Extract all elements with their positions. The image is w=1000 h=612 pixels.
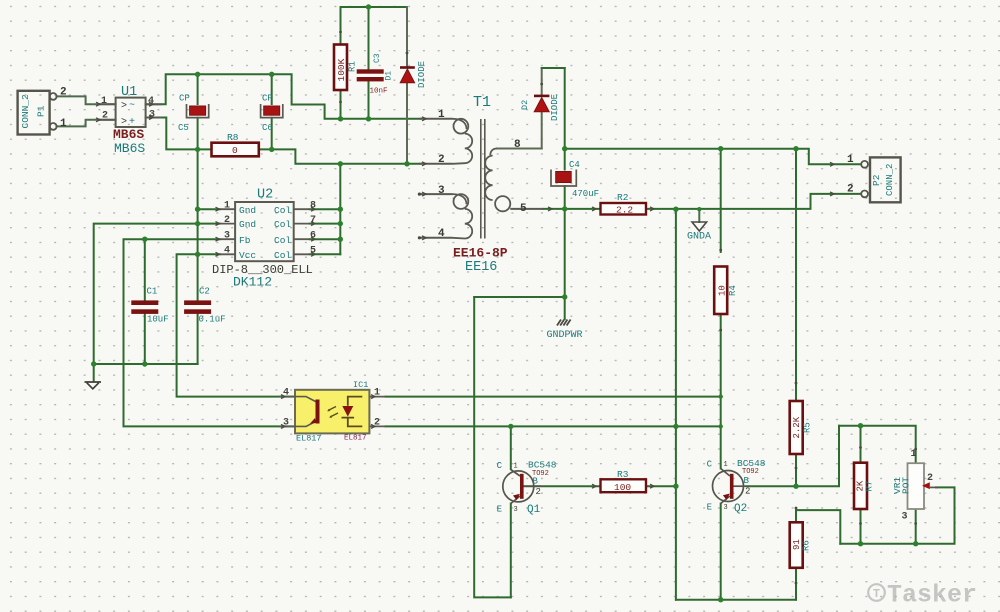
svg-text:POT: POT (901, 477, 912, 494)
junction collector rail (338, 161, 343, 166)
svg-text:1: 1 (224, 201, 230, 212)
wire D2 top corner (542, 67, 565, 69)
svg-text:3: 3 (724, 504, 728, 512)
svg-text:3: 3 (514, 506, 518, 514)
svg-text:5: 5 (520, 203, 527, 215)
svg-text:B: B (744, 476, 750, 486)
wire U2 collector column (339, 164, 341, 255)
wire R4 bottom to Q2 collector (720, 314, 722, 469)
wire D1 cathode (406, 7, 408, 67)
svg-text:R4: R4 (728, 285, 738, 296)
wire R5 bottom (795, 454, 797, 486)
ground symbol GNDPWR (557, 320, 571, 326)
junction VR1.3 (913, 541, 918, 546)
diode D2 (534, 96, 549, 112)
wire Q1 emitter loop (474, 297, 511, 597)
svg-text:TO92: TO92 (742, 468, 759, 476)
wire divider bottom rail to wiper (840, 487, 954, 543)
svg-text:~: ~ (129, 101, 135, 112)
wire U2.6 (310, 238, 341, 240)
svg-text:2.2: 2.2 (616, 205, 633, 216)
potentiometer VR1 (908, 463, 939, 509)
svg-text:P1: P1 (36, 105, 47, 117)
svg-text:C2: C2 (199, 287, 210, 297)
junction C1 bottom (142, 361, 147, 366)
junction IC1.2 wire at gnd column (673, 424, 678, 429)
junction C6 top (269, 72, 274, 77)
svg-text:U1: U1 (121, 85, 137, 100)
svg-text:DIODE: DIODE (550, 94, 560, 121)
wire R6 bottom (795, 568, 797, 600)
svg-text:Fb: Fb (239, 235, 251, 246)
svg-text:4: 4 (224, 246, 230, 257)
junction U2.6 (338, 237, 343, 242)
junction gnd bus left (91, 361, 96, 366)
svg-text:EL817: EL817 (296, 434, 322, 444)
svg-text:10nF: 10nF (370, 88, 388, 96)
svg-text:EE16: EE16 (465, 260, 497, 275)
svg-text:2: 2 (224, 215, 230, 226)
svg-text:T1: T1 (473, 94, 491, 111)
svg-text:Gnd: Gnd (239, 205, 256, 216)
junction C2 top Vcc (195, 252, 200, 257)
wire R5 top column (795, 149, 797, 401)
wire Q1 collector (510, 426, 512, 469)
wire U2.1 (198, 208, 220, 210)
svg-text:CP: CP (262, 94, 273, 104)
wire R2 to P2.2 (646, 194, 861, 209)
connector P2 (861, 157, 900, 202)
svg-text:1: 1 (438, 109, 445, 121)
transformer T1 (419, 119, 543, 239)
watermark (868, 581, 977, 610)
svg-text:C6: C6 (262, 123, 273, 133)
svg-text:BC548: BC548 (528, 460, 557, 471)
svg-text:91: 91 (792, 539, 802, 550)
junction IC1.2 at collector column (719, 424, 723, 428)
transistor Q1 (503, 469, 541, 504)
wire C2 bottom (197, 314, 199, 364)
svg-text:3: 3 (902, 512, 908, 523)
junction U2.1 column (195, 207, 200, 212)
svg-text:1: 1 (911, 449, 917, 460)
junction C1 top Fb (142, 237, 147, 242)
svg-text:MB6S: MB6S (114, 141, 145, 156)
transistor Q2 (713, 469, 747, 504)
svg-text:R7: R7 (865, 481, 875, 492)
resistor R2 (601, 203, 647, 215)
wire R7 bottom (860, 509, 862, 544)
wire emitter bottom rail (676, 599, 796, 601)
svg-text:2.2K: 2.2K (792, 416, 802, 438)
svg-text:2: 2 (847, 184, 854, 196)
svg-text:1: 1 (724, 461, 728, 469)
wire Q2 emitter (720, 504, 722, 600)
svg-text:Tasker: Tasker (887, 581, 977, 610)
wire C6 bottom branch (271, 118, 273, 150)
wire P1.2 to U1.1 (57, 96, 116, 104)
wire U1.3 to R8 left (146, 118, 212, 150)
wire output gnd column below C4 to GNDPWR (564, 186, 566, 319)
wire R7 top (860, 426, 862, 463)
svg-text:R6: R6 (802, 540, 812, 551)
wire IC1.2 to R4 column (385, 425, 720, 427)
svg-text:>: > (121, 101, 127, 112)
svg-text:C3: C3 (373, 53, 382, 63)
svg-text:EE16-8P: EE16-8P (453, 246, 508, 261)
svg-text:100: 100 (614, 482, 631, 493)
wire U2.7 (310, 223, 341, 225)
wire top snubber bus (341, 6, 408, 8)
svg-text:C: C (707, 460, 713, 470)
wire R6 top (796, 510, 840, 544)
svg-text:C4: C4 (569, 160, 580, 170)
svg-text:DK112: DK112 (233, 275, 272, 290)
wire Q1 emitter (510, 504, 512, 598)
capacitor C2 (184, 300, 211, 314)
resistor R8 (212, 143, 259, 157)
resistor R4 (714, 267, 727, 315)
wire U1.4 bridge plus rail to T1.1 (146, 74, 421, 119)
svg-text:Q1: Q1 (527, 504, 541, 516)
svg-text:3: 3 (438, 185, 445, 197)
wire U2.3 Fb to IC1.3 (124, 239, 296, 426)
pin end marks (96, 102, 834, 488)
svg-text:MB6S: MB6S (113, 127, 144, 142)
svg-text:2: 2 (102, 111, 108, 122)
wire U2.4 Vcc to IC1.4 (177, 254, 295, 396)
diode D1 (400, 68, 415, 83)
junction Q2 emitter rail (718, 597, 723, 602)
junction Q1 collector (508, 424, 513, 429)
wire C6 top branch (271, 74, 273, 104)
wire R6 top stub (795, 510, 797, 522)
svg-text:EL817: EL817 (344, 435, 367, 443)
svg-text:CONN_2: CONN_2 (885, 164, 895, 196)
svg-text:Col: Col (274, 235, 291, 246)
ground symbol GNDA (692, 222, 707, 231)
junction D1 anode rail (404, 161, 409, 166)
svg-text:T: T (873, 587, 880, 601)
svg-text:IC1: IC1 (353, 380, 368, 390)
svg-text:Q2: Q2 (734, 503, 747, 515)
capacitor C3 (357, 69, 384, 81)
resistor R7 (854, 463, 867, 509)
junction R5 bottom Q2 base (793, 484, 798, 489)
junction output plus at column (562, 146, 567, 151)
wire Q2 base to divider (747, 426, 840, 487)
wire ground bus to caps (94, 363, 198, 365)
svg-text:1: 1 (847, 154, 854, 166)
svg-text:0.1uF: 0.1uF (199, 315, 226, 325)
junction R7 top (858, 423, 863, 428)
svg-text:CONN_2: CONN_2 (20, 94, 31, 129)
wire IC1.1 to Q2 collector (385, 396, 720, 398)
junction C5 bottom rail (195, 147, 200, 152)
wire D2 cathode to output column (541, 68, 543, 96)
junction R5 top (793, 146, 798, 151)
svg-text:1: 1 (101, 96, 107, 107)
wire R3 right (646, 485, 676, 487)
junction C5 top (195, 72, 200, 77)
connector P1 (18, 91, 57, 135)
svg-text:Col: Col (274, 250, 291, 261)
svg-text:2: 2 (745, 487, 750, 497)
wire T1.8 to D2 (497, 148, 542, 150)
ground symbol GND (85, 382, 102, 389)
junction U2.8 (338, 207, 343, 212)
svg-text:2: 2 (536, 487, 541, 497)
wire P1.1 to U1.2 (57, 120, 116, 127)
wire output plus column above C4 (564, 68, 566, 170)
wire C1 bottom (144, 314, 146, 364)
svg-text:C: C (497, 461, 503, 471)
svg-text:2: 2 (60, 87, 67, 99)
wire U2.8 (310, 208, 341, 210)
svg-text:C5: C5 (178, 123, 189, 133)
capacitor C4 (551, 170, 576, 187)
svg-text:100K: 100K (336, 58, 347, 81)
wire R8 right to T1.2 (259, 149, 421, 163)
junction top bus / C3 (366, 4, 371, 9)
capacitor C6 (261, 104, 283, 118)
svg-text:GNDA: GNDA (687, 232, 711, 243)
svg-text:R2: R2 (617, 192, 629, 203)
capacitor C1 (131, 300, 158, 314)
IC U2 DK112 (220, 202, 310, 261)
wire secondary gnd column (675, 209, 677, 600)
wire R1 bottom (340, 90, 342, 119)
junction IC1.1 at collector column (719, 394, 723, 398)
resistor R5 (790, 401, 803, 454)
svg-text:10: 10 (718, 285, 728, 296)
svg-text:E: E (497, 505, 502, 515)
optocoupler IC1 (279, 390, 385, 434)
wire C3 top (368, 7, 370, 70)
junction secondary gnd rail (673, 207, 678, 212)
wire VR1.3 (915, 509, 917, 544)
svg-text:B: B (533, 477, 539, 487)
wire R4 top column (720, 149, 722, 252)
wire U2.5 (310, 253, 341, 255)
wire C1 top (144, 239, 146, 300)
bridge U1 (99, 98, 162, 127)
svg-text:10uF: 10uF (147, 315, 169, 325)
resistor R6 (790, 522, 803, 568)
junction C3 bottom (366, 116, 371, 121)
svg-text:4: 4 (438, 228, 445, 240)
wire divider top rail (839, 426, 916, 464)
svg-text:D1: D1 (385, 71, 394, 81)
resistor R3 (601, 479, 647, 492)
junction R1 bottom (338, 116, 343, 121)
svg-text:C1: C1 (147, 287, 158, 297)
resistor R1 (334, 45, 347, 91)
svg-text:1: 1 (60, 118, 67, 130)
svg-text:R3: R3 (617, 469, 629, 480)
junction gnd branch (562, 294, 567, 299)
wire Q1 base to R3 (524, 485, 601, 487)
svg-text:Gnd: Gnd (239, 219, 256, 230)
svg-text:R8: R8 (227, 132, 239, 143)
wire GNDA stub (698, 209, 700, 222)
junction R7 bottom (858, 541, 863, 546)
svg-text:2: 2 (927, 473, 933, 484)
wire C5 top branch (197, 74, 199, 104)
svg-text:470uF: 470uF (572, 189, 599, 199)
svg-text:8: 8 (514, 139, 521, 151)
svg-text:DIODE: DIODE (417, 61, 427, 88)
wire U2.2 to ground (94, 224, 220, 381)
svg-text:R1: R1 (348, 61, 358, 72)
wire C3 bottom (368, 81, 370, 119)
svg-text:GNDPWR: GNDPWR (547, 330, 583, 341)
junction U2.2 column (195, 221, 200, 226)
svg-text:Col: Col (274, 205, 291, 216)
svg-text:CP: CP (179, 94, 190, 104)
svg-text:3: 3 (224, 231, 230, 242)
junction R4 top (718, 146, 723, 151)
svg-text:D2: D2 (520, 100, 530, 110)
wire D2 anode (541, 112, 543, 148)
junction C6 bottom rail (269, 147, 274, 152)
wire D1 anode (406, 83, 408, 164)
wire gnd branch to Q1 emitter loop (474, 296, 565, 298)
svg-text:U2: U2 (257, 188, 273, 203)
svg-text:E: E (707, 503, 712, 513)
wire R1 top (340, 7, 342, 45)
junction T1.5 gnd column (562, 206, 567, 211)
junction GNDA (697, 207, 701, 211)
svg-text:P2: P2 (871, 174, 882, 186)
svg-text:Col: Col (274, 219, 291, 230)
svg-text:0: 0 (232, 145, 238, 156)
junction R3 right (673, 484, 678, 489)
capacitor C5 (187, 104, 209, 118)
wire C5 bottom / U2 supply column (197, 118, 199, 301)
junction U2.7 (338, 221, 343, 226)
svg-text:2: 2 (438, 154, 445, 166)
svg-text:1: 1 (514, 463, 518, 471)
svg-text:R5: R5 (803, 422, 813, 433)
wire output plus rail to P2.1 (565, 149, 861, 165)
wire T1.5 to R2 (543, 208, 601, 210)
svg-text:Vcc: Vcc (239, 250, 256, 261)
